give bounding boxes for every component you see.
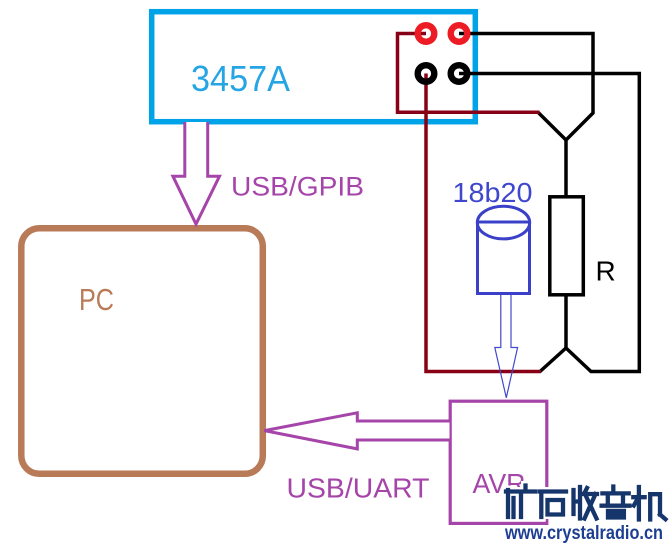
watermark char kuang bbox=[506, 486, 535, 518]
wire black from HI terminal to top Y node bbox=[459, 34, 593, 198]
wire black from LO terminal around right side to bottom Y node bbox=[459, 74, 639, 372]
wire black bottom-left diagonal into Y node bbox=[540, 348, 566, 372]
multimeter U1 3457A box bbox=[152, 12, 476, 122]
wire dark-red from red sense terminal down left side to top node bbox=[398, 34, 540, 113]
terminal red HI (left) bbox=[418, 25, 435, 42]
svg-text:PC: PC bbox=[79, 282, 114, 317]
terminal red HI (right) bbox=[451, 25, 468, 42]
arrow USB/GPIB from 3457A to PC bbox=[173, 122, 220, 224]
watermark char yin bbox=[602, 487, 630, 518]
watermark char shou bbox=[574, 487, 598, 519]
watermark char ji bbox=[633, 487, 665, 520]
sensor DS18b20 cylinder body bbox=[478, 222, 530, 294]
terminal black LO (right) bbox=[451, 65, 468, 82]
watermark char shi bbox=[540, 492, 567, 518]
svg-text:USB/UART: USB/UART bbox=[287, 473, 430, 504]
arrow sensor data line 18b20 to AVR bbox=[495, 295, 518, 398]
svg-text:www.crystalradio.cn: www.crystalradio.cn bbox=[504, 523, 663, 544]
svg-text:18b20: 18b20 bbox=[453, 177, 533, 208]
watermark logo text (kuang shi shou yin ji) bbox=[506, 486, 666, 520]
microcontroller AVR box bbox=[450, 401, 547, 523]
svg-text:R: R bbox=[596, 256, 616, 287]
PC box bbox=[21, 228, 262, 473]
wire black top-left diagonal into Y node bbox=[538, 112, 566, 140]
svg-text:USB/GPIB: USB/GPIB bbox=[231, 172, 364, 202]
sensor DS18b20 cylinder top ellipse bbox=[477, 206, 529, 239]
arrow USB/UART from AVR to PC bbox=[264, 413, 449, 449]
terminal black LO (left) bbox=[418, 65, 435, 82]
svg-text:3457A: 3457A bbox=[191, 58, 290, 99]
resistor R bbox=[550, 197, 584, 295]
wire dark-red from black sense terminal down to bottom node bbox=[426, 74, 541, 372]
